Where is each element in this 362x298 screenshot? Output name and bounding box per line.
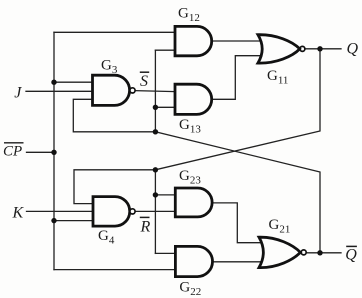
svg-text:G13: G13 bbox=[179, 117, 201, 136]
svg-text:G11: G11 bbox=[267, 68, 288, 87]
svg-text:J: J bbox=[14, 85, 22, 102]
svg-text:G21: G21 bbox=[269, 217, 291, 236]
svg-text:G3: G3 bbox=[101, 58, 118, 77]
svg-text:R: R bbox=[140, 218, 151, 235]
svg-text:G22: G22 bbox=[179, 279, 201, 298]
svg-text:CP: CP bbox=[3, 144, 22, 160]
svg-text:S: S bbox=[140, 73, 148, 90]
svg-text:Q: Q bbox=[345, 246, 357, 263]
svg-text:Q: Q bbox=[347, 40, 359, 57]
svg-text:G4: G4 bbox=[98, 228, 115, 247]
svg-text:G12: G12 bbox=[178, 6, 200, 25]
svg-text:K: K bbox=[12, 205, 25, 222]
svg-text:G23: G23 bbox=[179, 168, 201, 187]
